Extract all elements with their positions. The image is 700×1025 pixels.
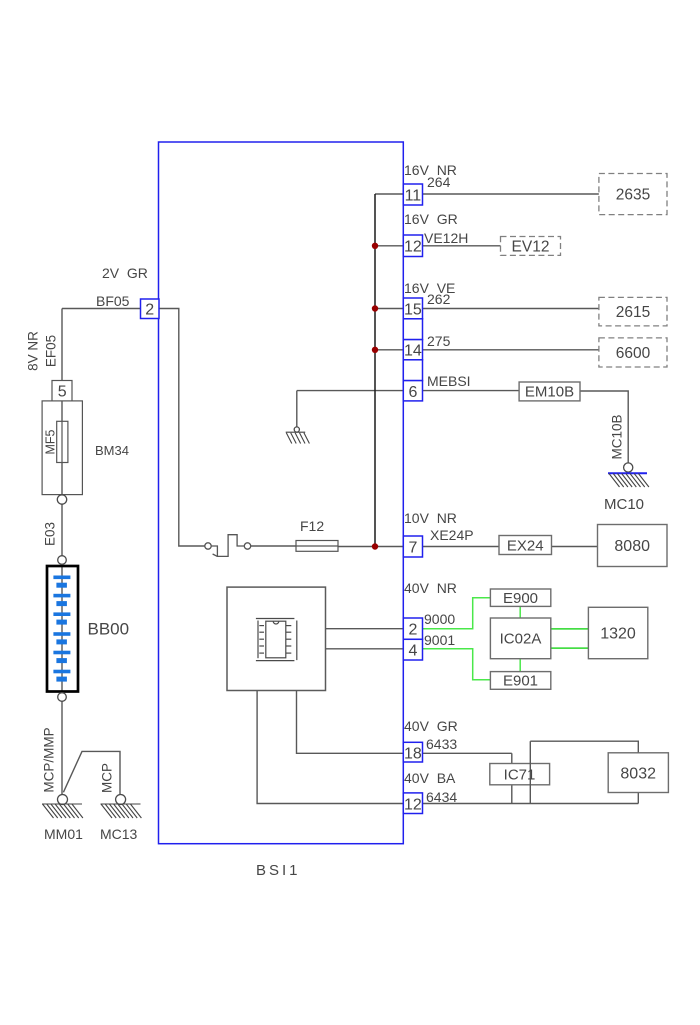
svg-text:7: 7 xyxy=(408,540,417,557)
svg-text:F12: F12 xyxy=(300,518,324,534)
svg-text:MC10: MC10 xyxy=(604,496,644,513)
svg-text:MC10B: MC10B xyxy=(610,414,625,459)
svg-text:12: 12 xyxy=(404,797,422,814)
svg-text:6600: 6600 xyxy=(616,345,651,362)
svg-text:BF05: BF05 xyxy=(96,293,130,309)
svg-text:8V NR: 8V NR xyxy=(26,331,41,371)
svg-text:264: 264 xyxy=(427,174,451,190)
svg-text:E03: E03 xyxy=(43,522,58,546)
svg-text:VE12H: VE12H xyxy=(424,230,468,246)
svg-text:BB00: BB00 xyxy=(88,620,130,639)
svg-text:4: 4 xyxy=(408,643,417,660)
svg-text:EX24: EX24 xyxy=(507,538,544,555)
svg-text:2: 2 xyxy=(145,302,154,319)
svg-text:1320: 1320 xyxy=(600,626,636,643)
svg-text:MEBSI: MEBSI xyxy=(427,373,471,389)
svg-text:40V NR: 40V NR xyxy=(404,580,457,596)
svg-text:2635: 2635 xyxy=(616,187,650,204)
svg-text:EF05: EF05 xyxy=(44,335,59,367)
svg-text:MC13: MC13 xyxy=(100,826,138,842)
svg-text:275: 275 xyxy=(427,333,451,349)
svg-text:40V GR: 40V GR xyxy=(404,718,458,734)
svg-text:10V NR: 10V NR xyxy=(404,510,457,526)
svg-text:MCP/MMP: MCP/MMP xyxy=(42,727,57,792)
svg-text:IC71: IC71 xyxy=(504,767,536,784)
svg-text:8080: 8080 xyxy=(614,538,650,555)
svg-text:MM01: MM01 xyxy=(44,826,83,842)
svg-text:6434: 6434 xyxy=(426,789,457,805)
svg-text:15: 15 xyxy=(404,302,422,319)
svg-text:2: 2 xyxy=(408,622,417,639)
svg-text:40V BA: 40V BA xyxy=(404,770,456,786)
svg-text:9001: 9001 xyxy=(424,632,455,648)
svg-text:6433: 6433 xyxy=(426,736,457,752)
svg-text:16V GR: 16V GR xyxy=(404,211,458,227)
svg-text:14: 14 xyxy=(404,343,422,360)
svg-text:E900: E900 xyxy=(503,590,538,607)
svg-text:11: 11 xyxy=(405,188,422,205)
svg-text:8032: 8032 xyxy=(620,766,656,783)
svg-text:262: 262 xyxy=(427,291,451,307)
svg-text:5: 5 xyxy=(58,384,67,401)
svg-text:E901: E901 xyxy=(503,673,538,690)
svg-text:EM10B: EM10B xyxy=(525,384,574,401)
svg-text:MCP: MCP xyxy=(100,763,115,793)
svg-text:9000: 9000 xyxy=(424,611,455,627)
svg-text:12: 12 xyxy=(404,239,422,256)
svg-text:EV12: EV12 xyxy=(512,239,550,256)
svg-text:BM34: BM34 xyxy=(95,443,129,458)
svg-text:MF5: MF5 xyxy=(44,429,58,454)
svg-text:18: 18 xyxy=(404,746,422,763)
svg-text:XE24P: XE24P xyxy=(430,527,474,543)
svg-text:IC02A: IC02A xyxy=(500,631,542,648)
svg-text:2615: 2615 xyxy=(616,304,650,321)
svg-text:6: 6 xyxy=(408,384,417,401)
svg-text:2V GR: 2V GR xyxy=(102,265,148,281)
svg-text:BSI1: BSI1 xyxy=(256,862,301,879)
